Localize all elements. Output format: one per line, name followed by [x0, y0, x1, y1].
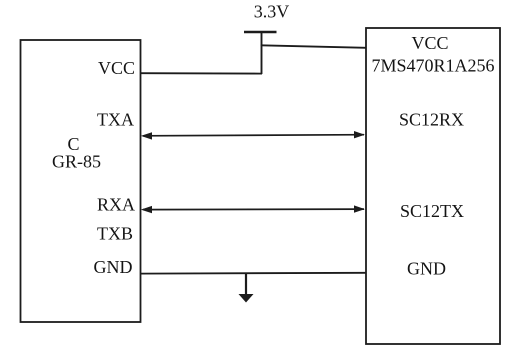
value label GR-85 of U1: [52, 152, 101, 172]
svg-text:GR-85: GR-85: [52, 152, 101, 172]
pin label GND of U1: [94, 257, 133, 277]
wire TXA to SC12RX (bidirectional): [141, 131, 365, 140]
wire 3.3V vertical drop: [261, 32, 263, 74]
svg-text:7MS470R1A256: 7MS470R1A256: [371, 56, 494, 76]
designator C of U1: [67, 134, 79, 154]
pin label SC12TX of U2: [400, 201, 464, 221]
wire RXA to SC12TX (bidirectional): [141, 205, 365, 213]
ground symbol (arrow to ground): [239, 273, 254, 303]
part number 7MS470R1A256 of U2: [371, 56, 494, 76]
svg-text:TXB: TXB: [97, 224, 133, 244]
pin label VCC of U2: [411, 33, 448, 53]
wire VCC net branch to U2: [261, 45, 367, 48]
pin label TXA of U1: [97, 110, 134, 130]
pin label GND of U2: [407, 259, 446, 279]
block U1 GR-85: [21, 40, 141, 322]
arrowhead at SC12TX (right): [354, 205, 365, 212]
wire GND net: [140, 272, 367, 275]
pin label SC12RX of U2: [399, 110, 464, 130]
svg-text:TXA: TXA: [97, 110, 134, 130]
power supply rail bar 3.3V: [244, 31, 277, 34]
svg-text:VCC: VCC: [411, 33, 448, 53]
pin label RXA of U1: [97, 195, 135, 215]
svg-text:GND: GND: [94, 257, 133, 277]
power net label 3.3V: [254, 2, 290, 22]
arrowhead at SC12RX (right): [354, 131, 365, 138]
svg-text:3.3V: 3.3V: [254, 2, 290, 22]
svg-text:SC12TX: SC12TX: [400, 201, 464, 221]
arrowhead at TXA (left): [141, 132, 152, 139]
svg-text:VCC: VCC: [98, 58, 135, 78]
svg-text:RXA: RXA: [97, 195, 135, 215]
arrowhead at RXA (left): [141, 206, 152, 213]
pin label TXB of U1: [97, 224, 133, 244]
svg-text:GND: GND: [407, 259, 446, 279]
pin label VCC of U1: [98, 58, 135, 78]
block U2 7MS470R1A256: [366, 28, 500, 344]
svg-text:SC12RX: SC12RX: [399, 110, 464, 130]
wire VCC net to U1: [140, 72, 262, 74]
